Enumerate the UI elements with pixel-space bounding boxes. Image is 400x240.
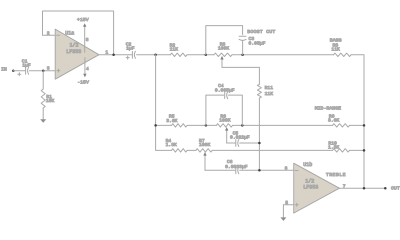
node treble right bbox=[363, 149, 366, 152]
svg-text:U1a: U1a bbox=[65, 30, 74, 36]
capacitor C3 0.05uF bbox=[239, 36, 265, 46]
svg-text:11K: 11K bbox=[265, 91, 274, 97]
op-amp U1b 1/2 LF353 bbox=[294, 162, 340, 213]
wire R3 to R8 bbox=[232, 54, 334, 56]
svg-text:3: 3 bbox=[47, 65, 50, 71]
svg-text:MID-RANGE: MID-RANGE bbox=[315, 106, 341, 112]
wire R9 to right bus bbox=[350, 124, 365, 126]
node feedback junction bbox=[112, 54, 115, 57]
node mid right bbox=[363, 124, 366, 127]
wire IN to C1 bbox=[13, 70, 25, 72]
pin 7 output wire bbox=[339, 184, 385, 190]
pin 1 output wire U1a bbox=[99, 49, 132, 55]
svg-text:11K: 11K bbox=[331, 46, 340, 52]
svg-text:10K: 10K bbox=[46, 98, 55, 104]
pin 8 +15V supply bbox=[77, 17, 89, 52]
resistor R1 10K bbox=[41, 71, 54, 119]
potentiometer R7 100K bbox=[196, 138, 212, 170]
wire right vertical bus bbox=[351, 55, 364, 189]
node C4 box right bbox=[241, 124, 244, 127]
svg-text:1.8K: 1.8K bbox=[166, 142, 177, 148]
resistor R8 11K BASS bbox=[330, 38, 351, 57]
svg-text:7: 7 bbox=[343, 184, 346, 190]
wire R7 wiper through C6 to pin 6 bbox=[205, 169, 294, 171]
pin 4 -15V supply bbox=[77, 58, 89, 86]
node A junction at R1 bbox=[42, 70, 45, 73]
capacitor C5 0.022uF bbox=[230, 130, 250, 146]
node OUT terminal bbox=[384, 186, 400, 192]
wire R7 to R10 bbox=[212, 149, 332, 151]
ground under R1 bbox=[40, 119, 46, 123]
wire boost-cut box bbox=[206, 26, 243, 55]
svg-text:1.8K: 1.8K bbox=[328, 145, 339, 151]
capacitor C4 0.005uF bbox=[215, 83, 235, 99]
svg-text:0.0033µF: 0.0033µF bbox=[225, 164, 248, 170]
svg-text:OUT: OUT bbox=[391, 186, 400, 192]
wire C1 to node A / pin 3 bbox=[29, 70, 55, 72]
wire R6 wiper through C5 bbox=[227, 142, 260, 144]
svg-text:TREBLE: TREBLE bbox=[326, 172, 346, 178]
wire R10 to right bus bbox=[350, 149, 365, 151]
svg-text:1µF: 1µF bbox=[22, 63, 31, 69]
svg-text:5: 5 bbox=[285, 200, 288, 206]
svg-text:0.022µF: 0.022µF bbox=[230, 134, 250, 140]
capacitor C6 0.0033uF bbox=[225, 159, 248, 174]
svg-text:1: 1 bbox=[105, 49, 108, 55]
capacitor C1 1uF polarized bbox=[18, 59, 31, 76]
wire C4 box bbox=[206, 95, 242, 125]
wire left vertical bus bbox=[156, 55, 172, 151]
wire R2 to R3 bbox=[187, 54, 214, 56]
svg-text:100K: 100K bbox=[199, 142, 210, 148]
svg-text:LF353: LF353 bbox=[66, 49, 81, 55]
ground under U1b bbox=[280, 217, 286, 221]
node IN terminal bbox=[1, 67, 15, 73]
wire R3 wiper to summing bus bbox=[222, 67, 259, 84]
svg-text:1/2: 1/2 bbox=[70, 43, 79, 49]
pin 5 wire to ground bbox=[283, 200, 293, 218]
node C4 box left bbox=[205, 124, 208, 127]
svg-text:8: 8 bbox=[86, 37, 89, 43]
svg-text:U1b: U1b bbox=[303, 162, 312, 168]
svg-text:100K: 100K bbox=[219, 118, 230, 124]
wire feedback loop U1a output to pin 2 bbox=[43, 11, 114, 55]
resistor R10 1.8K bbox=[328, 140, 349, 152]
svg-text:BOOST CUT: BOOST CUT bbox=[247, 29, 275, 35]
svg-text:1µF: 1µF bbox=[126, 46, 135, 52]
resistor R11 11K bbox=[257, 84, 273, 98]
node mid bus left bbox=[154, 124, 157, 127]
potentiometer R3 100K bbox=[214, 42, 232, 68]
resistor R9 3.6K MID-RANGE bbox=[315, 106, 350, 128]
resistor R5 3.6K bbox=[166, 114, 187, 128]
svg-text:+15V: +15V bbox=[77, 17, 89, 23]
svg-text:LF353: LF353 bbox=[303, 185, 318, 191]
pin 2 wire (inverting input) bbox=[43, 31, 56, 37]
wire R5 to R6 bbox=[187, 124, 216, 126]
svg-text:0.05µF: 0.05µF bbox=[249, 40, 266, 46]
svg-text:3.6K: 3.6K bbox=[166, 118, 177, 124]
svg-text:2: 2 bbox=[47, 31, 50, 37]
svg-text:100K: 100K bbox=[218, 46, 229, 52]
wire summing vertical bbox=[258, 98, 260, 170]
resistor R2 11K bbox=[170, 43, 187, 57]
svg-text:0.005µF: 0.005µF bbox=[215, 87, 235, 93]
node C5 to summing bbox=[258, 142, 261, 145]
capacitor C2 1uF polarized bbox=[126, 41, 136, 59]
svg-text:3.6K: 3.6K bbox=[328, 118, 339, 124]
svg-text:4: 4 bbox=[86, 66, 89, 72]
svg-text:IN: IN bbox=[1, 67, 7, 73]
node summing junction bbox=[258, 169, 261, 172]
svg-text:1/2: 1/2 bbox=[305, 179, 314, 185]
wire C2 to R2 bbox=[137, 54, 171, 56]
potentiometer R6 100K bbox=[216, 113, 232, 143]
node boost box left bbox=[205, 54, 208, 57]
wire R6 to R9 bbox=[233, 124, 333, 126]
node left bus junction bbox=[154, 54, 157, 57]
wire R4 to R7 bbox=[187, 149, 196, 151]
resistor R4 1.8K bbox=[166, 138, 188, 152]
svg-text:R11: R11 bbox=[265, 85, 274, 91]
op-amp U1a 1/2 LF353 bbox=[55, 29, 99, 79]
wire mid bus left bbox=[156, 124, 172, 126]
node boost box right bbox=[241, 54, 244, 57]
svg-text:11K: 11K bbox=[170, 47, 179, 53]
node output bus junction bbox=[363, 187, 366, 190]
svg-text:-15V: -15V bbox=[77, 80, 89, 86]
svg-text:6: 6 bbox=[285, 166, 288, 172]
